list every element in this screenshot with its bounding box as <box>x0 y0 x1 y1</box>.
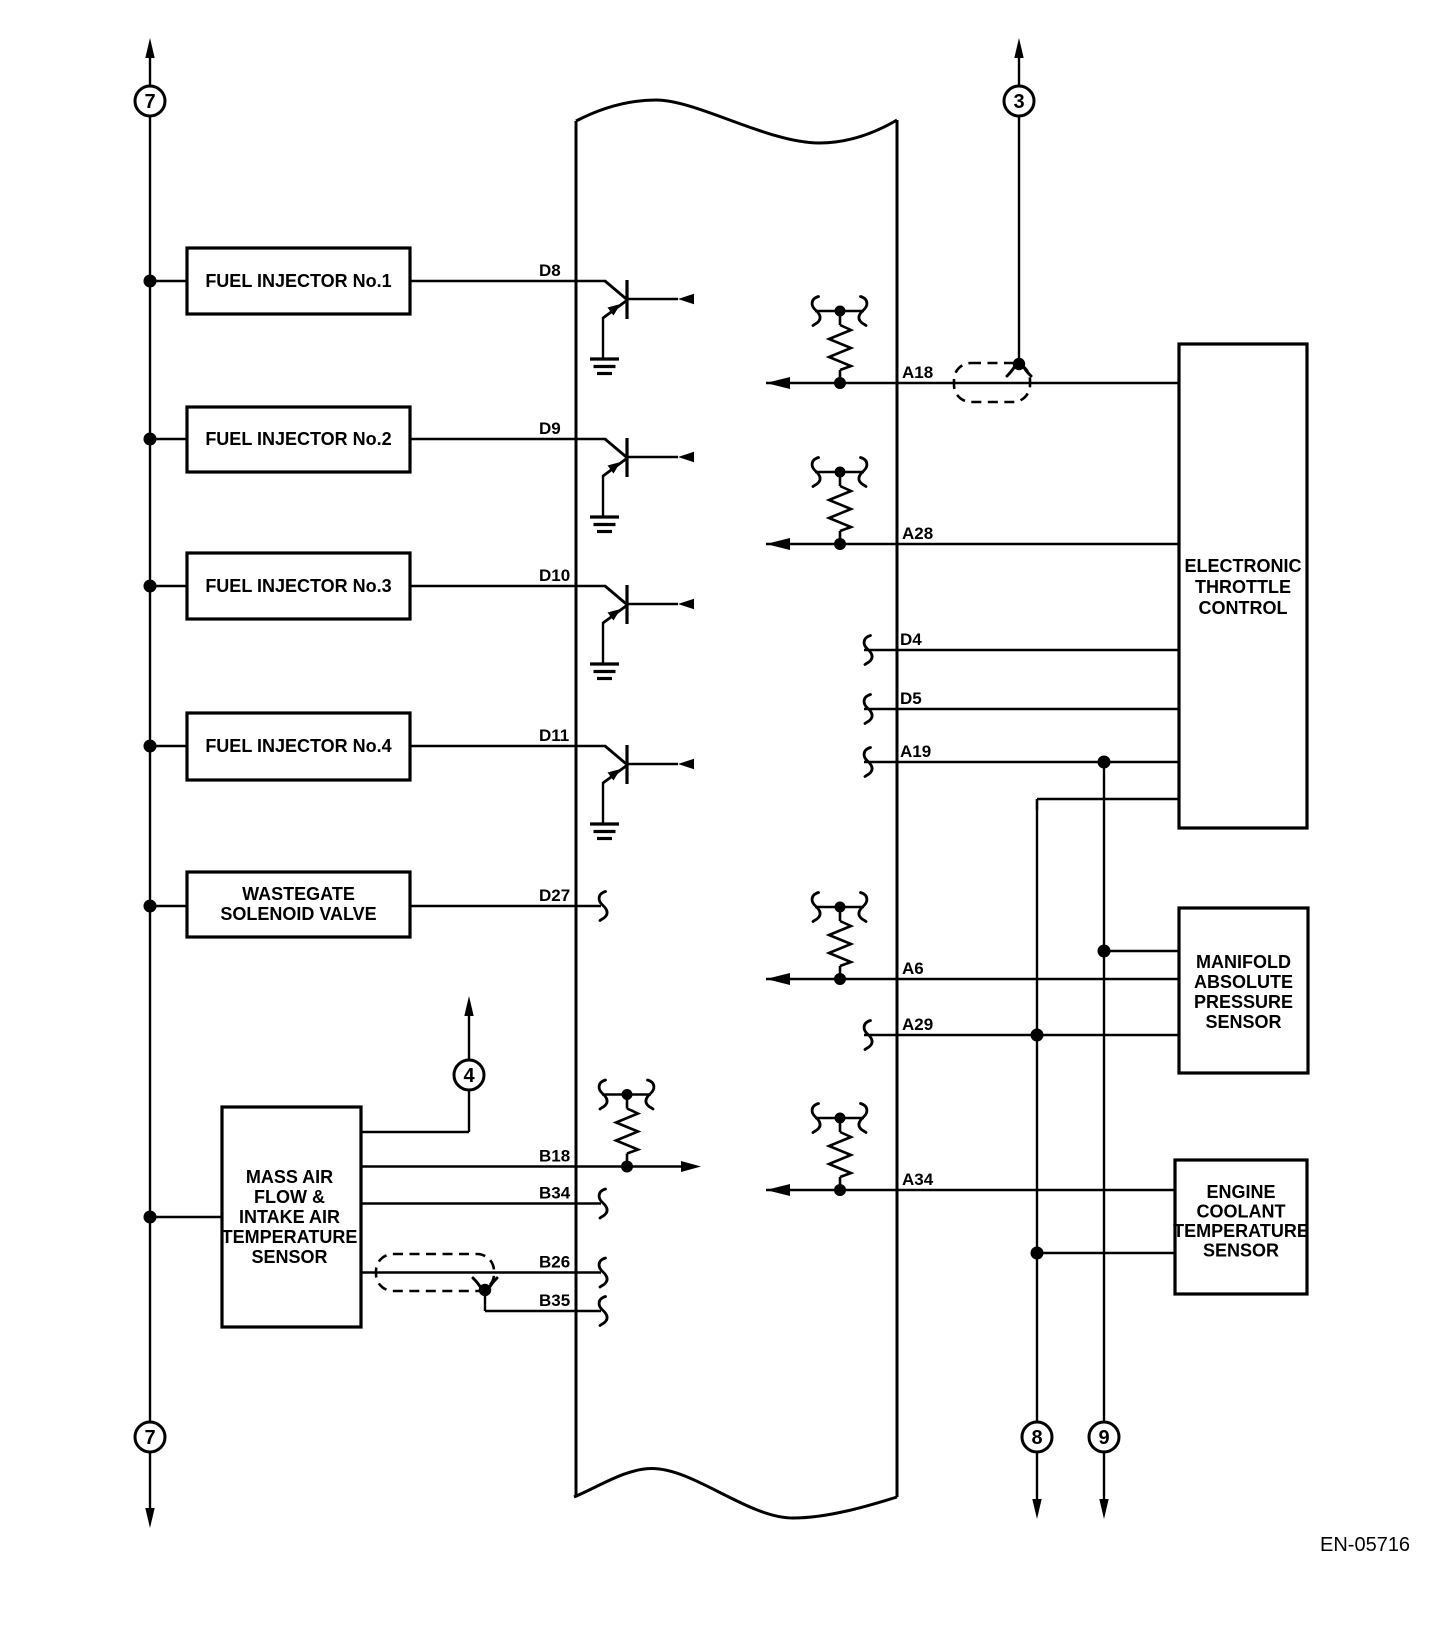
svg-text:SOLENOID VALVE: SOLENOID VALVE <box>220 904 376 924</box>
transistor Q2 (injector driver) <box>603 438 694 517</box>
pull-up resistor at A18 <box>812 297 867 390</box>
svg-text:D11: D11 <box>539 726 569 745</box>
pin label D8 <box>539 261 561 280</box>
svg-text:7: 7 <box>144 1427 155 1449</box>
wire B35: shield drain to ECM pin B35 <box>485 1290 601 1311</box>
svg-text:A34: A34 <box>902 1170 934 1189</box>
connector circle 7 (top) <box>135 86 165 116</box>
wire: wastegate valve to ECM pin D27 <box>410 905 601 907</box>
pin label D11 <box>539 726 569 745</box>
wire A28: ETC to ECM pin A28 <box>766 543 1179 545</box>
wire: MAF sensor to connector 4 <box>361 1090 469 1132</box>
pin label D27 <box>539 886 570 905</box>
shield oval around B26 wire <box>376 1254 494 1291</box>
svg-text:SENSOR: SENSOR <box>1203 1241 1279 1261</box>
svg-text:SENSOR: SENSOR <box>1205 1012 1281 1032</box>
power bus arrow up (top left) <box>145 38 154 86</box>
transistor Q3 (injector driver) <box>603 585 694 664</box>
fuel injector No.3 box <box>187 553 410 619</box>
pin label B34 <box>539 1184 571 1203</box>
ground <box>590 359 619 374</box>
electronic throttle control box <box>1179 344 1307 828</box>
svg-text:A29: A29 <box>902 1015 933 1034</box>
pin label B26 <box>539 1253 570 1272</box>
svg-text:SENSOR: SENSOR <box>251 1247 327 1267</box>
svg-text:THROTTLE: THROTTLE <box>1195 577 1291 597</box>
pin label D5 <box>900 689 922 708</box>
wire: rail to fuel injector No.2 <box>150 438 187 440</box>
fuel injector No.1 box <box>187 248 410 314</box>
wire: vertical bus to connector 8 <box>1036 799 1038 1422</box>
node: rail junction to fuel injector No.4 <box>144 740 157 753</box>
wire: rail to fuel injector No.1 <box>150 280 187 282</box>
node: rail junction to fuel injector No.1 <box>144 275 157 288</box>
svg-text:WASTEGATE: WASTEGATE <box>242 884 355 904</box>
svg-text:INTAKE AIR: INTAKE AIR <box>239 1207 340 1227</box>
node: rail junction to mass air flow sensor <box>144 1211 157 1224</box>
ECM bottom edge (wavy) <box>574 1469 897 1519</box>
pull-up resistor at B18 <box>599 1080 654 1173</box>
manifold absolute pressure sensor box <box>1179 908 1308 1073</box>
svg-text:A6: A6 <box>902 959 924 978</box>
tap arrow onto A18 wire <box>1007 357 1031 376</box>
svg-text:FLOW &: FLOW & <box>254 1187 325 1207</box>
shield drain arrow to B35 <box>473 1278 497 1297</box>
svg-text:ENGINE: ENGINE <box>1206 1182 1275 1202</box>
arrow: A34 into ECM <box>766 1184 790 1196</box>
connector circle 3 <box>1004 86 1034 116</box>
svg-text:FUEL INJECTOR No.2: FUEL INJECTOR No.2 <box>205 429 391 449</box>
pin label D4 <box>900 630 922 649</box>
wire: fuel injector No.2 to ECM pin D9 <box>410 438 606 440</box>
connector circle 9 <box>1089 1422 1119 1452</box>
wire: coolant sensor return to bus 8 <box>1037 1252 1175 1254</box>
break squiggle at B35 <box>599 1297 607 1326</box>
svg-text:COOLANT: COOLANT <box>1197 1202 1286 1222</box>
arrow: A6 into ECM <box>766 973 790 985</box>
svg-text:B18: B18 <box>539 1147 570 1166</box>
power bus arrow down (bottom left) <box>145 1452 154 1528</box>
node: junction at MAP supply <box>1098 945 1111 958</box>
svg-text:7: 7 <box>144 91 155 113</box>
svg-text:PRESSURE: PRESSURE <box>1194 992 1293 1012</box>
wire B18: MAF signal into ECM <box>361 1165 682 1167</box>
break squiggle at B26 <box>599 1258 607 1287</box>
svg-text:MANIFOLD: MANIFOLD <box>1196 952 1291 972</box>
pin label A34 <box>902 1170 934 1189</box>
svg-text:8: 8 <box>1031 1427 1042 1449</box>
wire B34: MAF to ECM pin B34 <box>361 1202 601 1204</box>
arrow: B18 signal into ECM <box>681 1161 701 1172</box>
ground <box>590 824 619 839</box>
drawing number EN-05716 <box>1320 1534 1410 1556</box>
wire: fuel injector No.1 to ECM pin D8 <box>410 280 606 282</box>
svg-text:9: 9 <box>1098 1427 1109 1449</box>
svg-text:D9: D9 <box>539 419 561 438</box>
break squiggle at A19 <box>864 748 872 777</box>
fuel injector No.2 box <box>187 407 410 472</box>
pull-up resistor at A34 <box>812 1104 867 1197</box>
svg-text:FUEL INJECTOR No.1: FUEL INJECTOR No.1 <box>205 271 391 291</box>
transistor Q4 (injector driver) <box>603 745 694 824</box>
pull-up resistor at A28 <box>812 458 867 551</box>
arrow: A28 into ECM <box>766 538 790 550</box>
svg-text:EN-05716: EN-05716 <box>1320 1534 1410 1556</box>
wire: left power rail <box>149 116 151 1422</box>
node: A19 junction <box>1098 756 1111 769</box>
pin label D9 <box>539 419 561 438</box>
pin label B18 <box>539 1147 570 1166</box>
connector circle 7 (bottom) <box>135 1422 165 1452</box>
wire: fuel injector No.4 to ECM pin D11 <box>410 745 606 747</box>
svg-text:FUEL INJECTOR No.3: FUEL INJECTOR No.3 <box>205 576 391 596</box>
wire A29: ECM to MAP sensor <box>864 1034 1179 1036</box>
wire: ETC ground return <box>1037 799 1179 810</box>
wire A18: ETC to ECM pin A18 <box>766 382 1179 384</box>
svg-text:CONTROL: CONTROL <box>1199 598 1288 618</box>
svg-text:3: 3 <box>1013 91 1024 113</box>
ECM right border <box>896 120 899 1497</box>
svg-text:FUEL INJECTOR No.4: FUEL INJECTOR No.4 <box>205 736 391 756</box>
pull-up resistor at A6 <box>812 893 867 986</box>
ECM top edge (wavy) <box>576 100 897 143</box>
pin label B35 <box>539 1291 570 1310</box>
arrow down to sheet 9 <box>1099 1452 1108 1519</box>
svg-text:A28: A28 <box>902 524 933 543</box>
arrow up to sheet 3 <box>1014 38 1023 86</box>
svg-text:MASS AIR: MASS AIR <box>246 1167 333 1187</box>
svg-text:ABSOLUTE: ABSOLUTE <box>1194 972 1293 992</box>
svg-text:B34: B34 <box>539 1184 571 1203</box>
svg-text:4: 4 <box>463 1065 475 1087</box>
node: rail junction to wastegate solenoid valve <box>144 900 157 913</box>
wire D5: ECM to electronic throttle control <box>864 708 1179 710</box>
wire: rail to mass air flow sensor <box>150 1216 222 1218</box>
pin label A29 <box>902 1015 933 1034</box>
break squiggle at A29 <box>864 1021 872 1050</box>
node: coolant return junction <box>1031 1247 1044 1260</box>
wire: connector 3 down to A18 <box>1018 116 1020 360</box>
wire: rail to fuel injector No.3 <box>150 585 187 587</box>
ground <box>590 664 619 679</box>
wire D4: ECM to electronic throttle control <box>864 649 1179 651</box>
pin label A18 <box>902 363 933 382</box>
wire: vertical bus to connector 9 <box>1103 762 1105 1422</box>
wire: fuel injector No.3 to ECM pin D10 <box>410 585 606 587</box>
wire: rail to wastegate solenoid valve <box>150 905 187 907</box>
node: A29 junction with bus 8 <box>1031 1029 1044 1042</box>
svg-text:TEMPERATURE: TEMPERATURE <box>1173 1221 1309 1241</box>
wire A34: coolant sensor signal to ECM pin A34 <box>766 1189 1175 1191</box>
break squiggle at D4 <box>864 636 872 665</box>
ground <box>590 517 619 532</box>
break squiggle at D27 <box>599 892 607 921</box>
mass air flow & intake air temperature sensor box <box>222 1107 361 1327</box>
svg-text:B26: B26 <box>539 1253 570 1272</box>
svg-text:D5: D5 <box>900 689 922 708</box>
wire: bus 9 to MAP sensor supply <box>1104 950 1179 952</box>
svg-text:A19: A19 <box>900 742 931 761</box>
node: rail junction to fuel injector No.2 <box>144 433 157 446</box>
arrow down to sheet 8 <box>1032 1452 1041 1519</box>
wire: rail to fuel injector No.4 <box>150 745 187 747</box>
svg-text:A18: A18 <box>902 363 933 382</box>
engine coolant temperature sensor box <box>1173 1160 1309 1294</box>
connector circle 8 <box>1022 1422 1052 1452</box>
node: rail junction to fuel injector No.3 <box>144 580 157 593</box>
connector circle 4 <box>454 1060 484 1090</box>
svg-text:TEMPERATURE: TEMPERATURE <box>222 1227 358 1247</box>
svg-text:D27: D27 <box>539 886 570 905</box>
svg-text:ELECTRONIC: ELECTRONIC <box>1185 556 1302 576</box>
wire A6: MAP signal to ECM pin A6 <box>766 978 1179 980</box>
pin label A28 <box>902 524 933 543</box>
svg-text:D4: D4 <box>900 630 922 649</box>
ECM left border <box>575 121 578 1497</box>
arrow up to sheet 4 <box>464 996 473 1060</box>
wire A19: ECM to electronic throttle control <box>864 761 1179 763</box>
arrow: A18 into ECM <box>766 377 790 389</box>
svg-text:B35: B35 <box>539 1291 570 1310</box>
fuel injector No.4 box <box>187 713 410 780</box>
wire B26: MAF to ECM pin B26 (shielded) <box>361 1271 601 1273</box>
break squiggle at B34 <box>599 1189 607 1218</box>
pin label A19 <box>900 742 931 761</box>
transistor Q1 (injector driver) <box>603 280 694 359</box>
svg-text:D10: D10 <box>539 566 570 585</box>
pin label D10 <box>539 566 570 585</box>
wastegate solenoid valve box <box>187 872 410 937</box>
svg-text:D8: D8 <box>539 261 561 280</box>
break squiggle at D5 <box>864 695 872 724</box>
shield oval on A18 wire <box>954 363 1030 402</box>
pin label A6 <box>902 959 924 978</box>
